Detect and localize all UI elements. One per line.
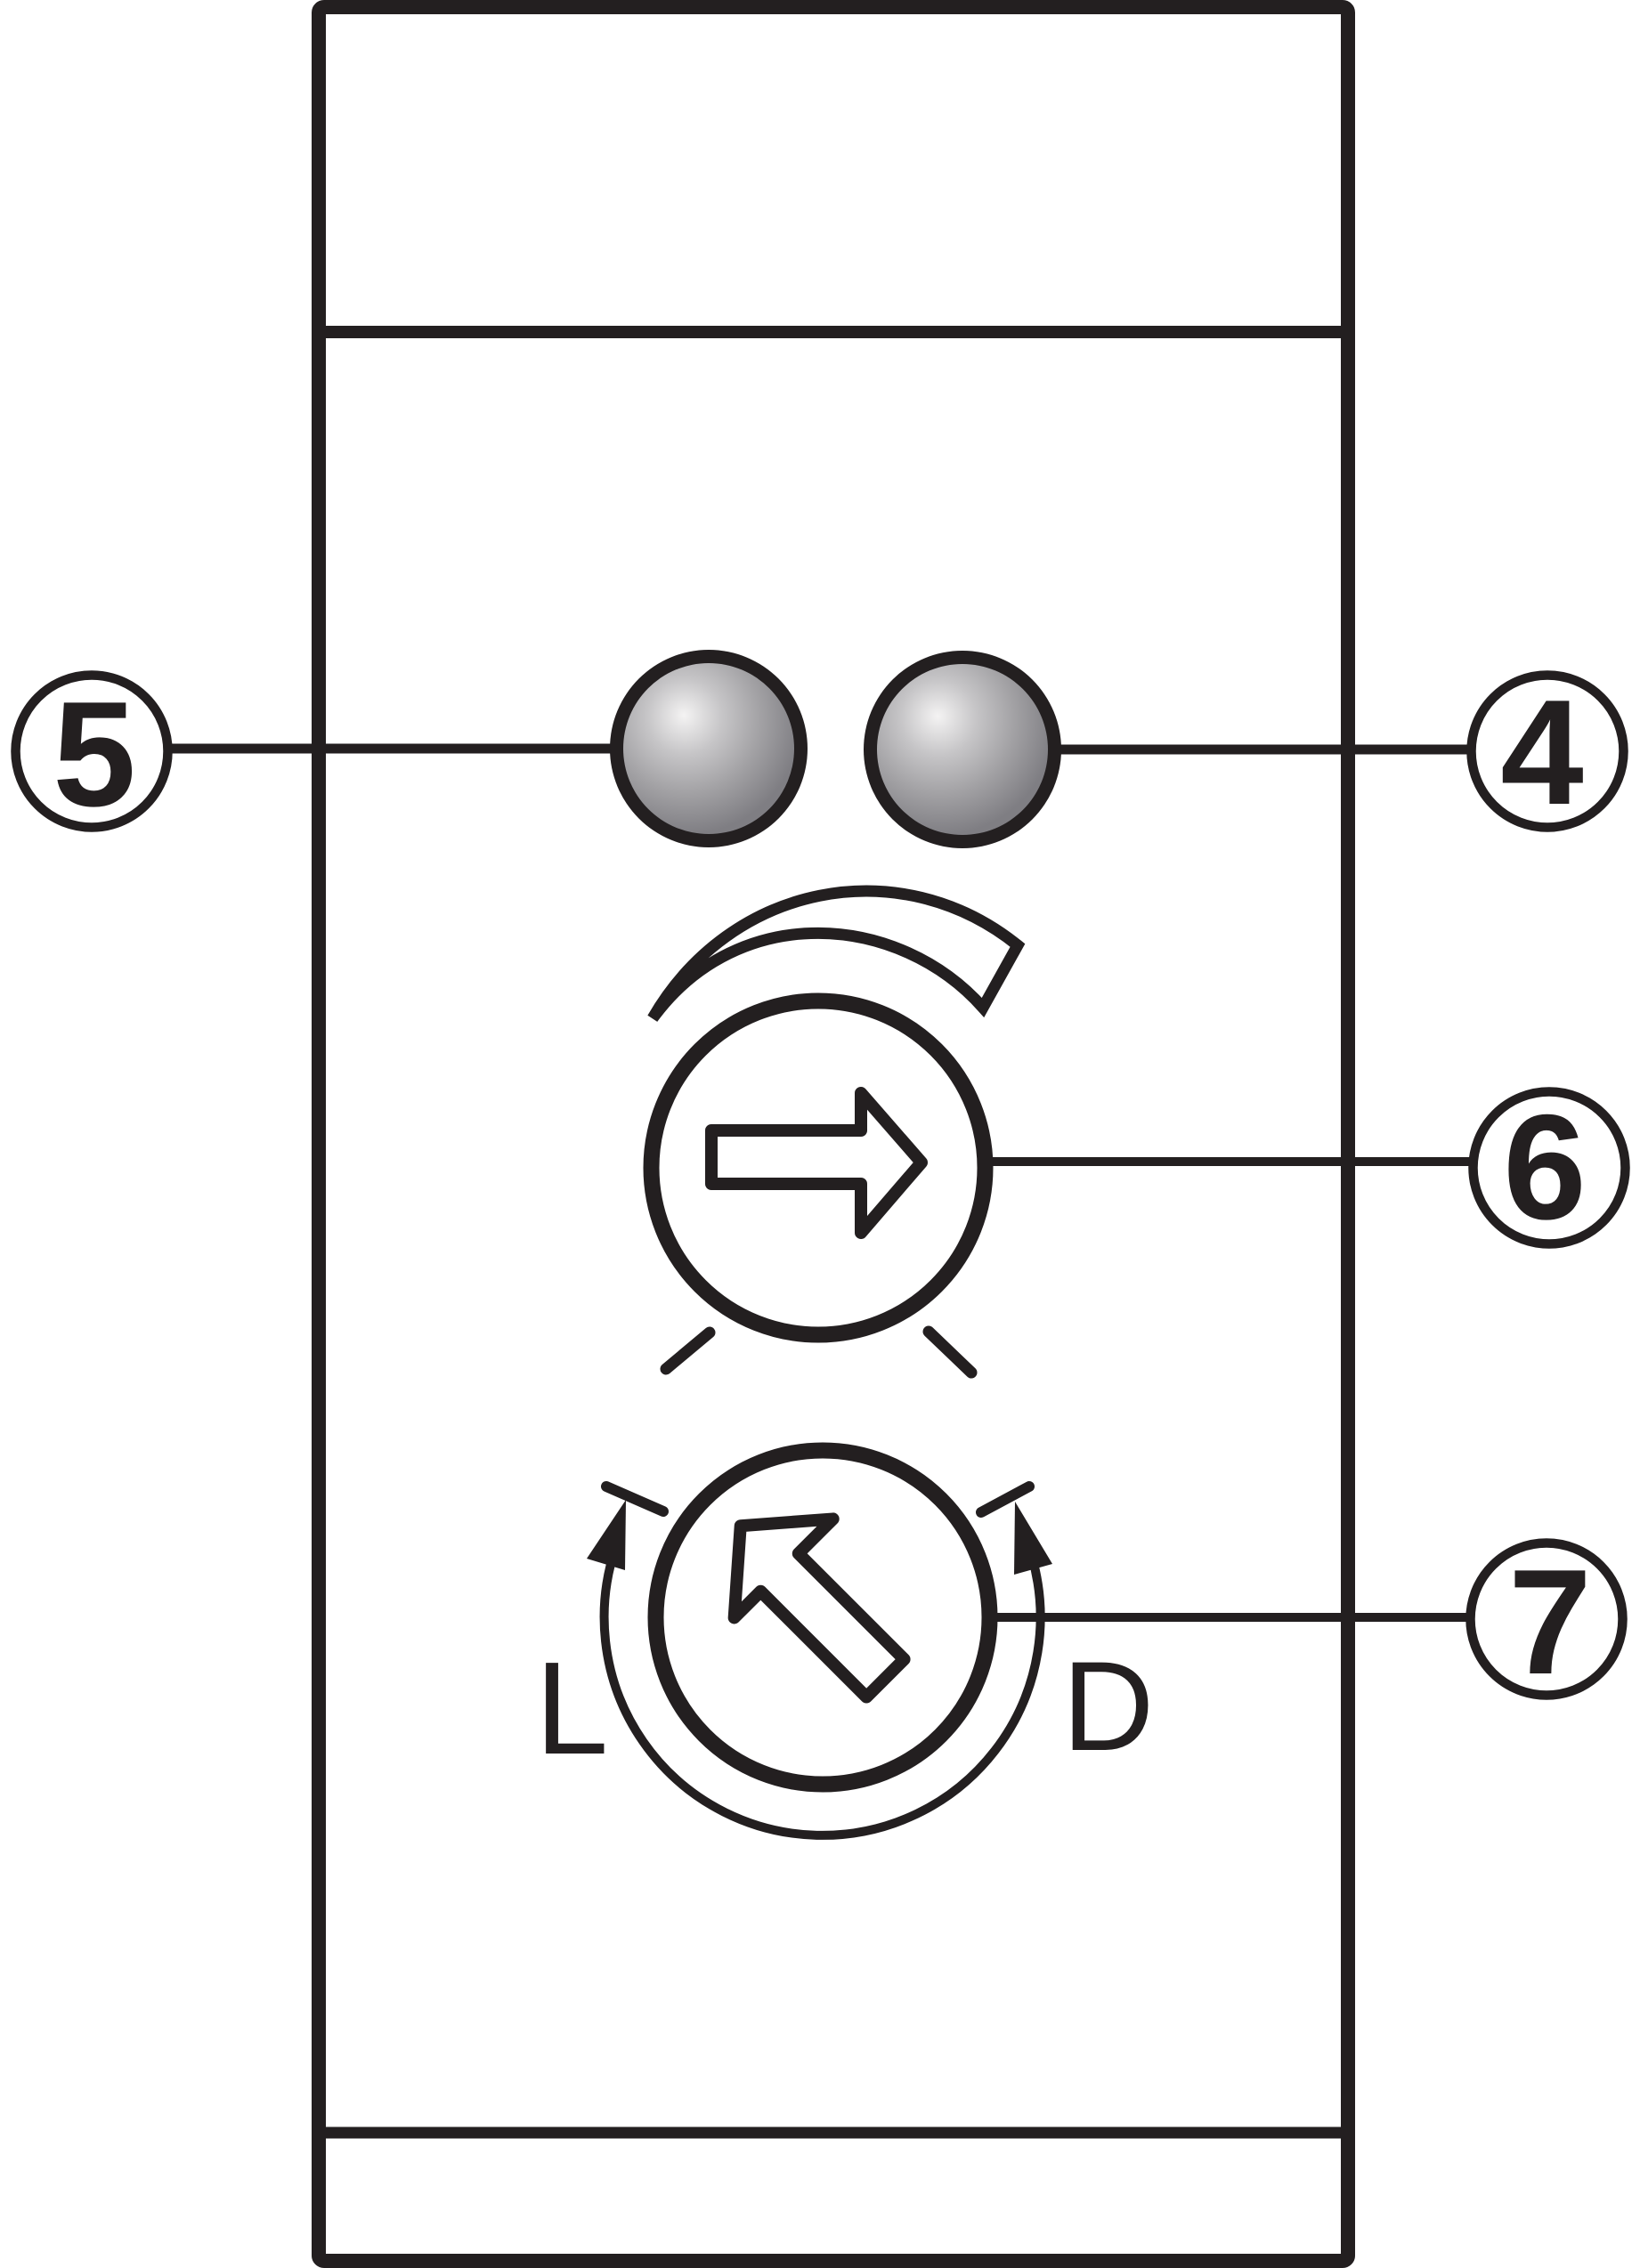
thin rotation arc around knob 2 [605, 1546, 1041, 1835]
leader line knob2 to 7 [979, 1613, 1471, 1622]
tick mark lower-left of knob 1 [666, 1332, 710, 1369]
tick mark upper-right of knob 2 [981, 1486, 1029, 1512]
leader line knob1 to 6 [984, 1157, 1474, 1166]
bottom separator line [321, 2127, 1346, 2139]
top separator line [321, 326, 1346, 338]
svg-text:L: L [535, 1635, 608, 1782]
arrow inside knob 1 (pointing right) [711, 1093, 921, 1233]
callout circle 7 [1471, 1543, 1623, 1696]
arrowhead right end of arc [1014, 1502, 1052, 1575]
svg-text:D: D [1062, 1636, 1154, 1778]
callout circle 4 [1472, 676, 1624, 828]
arrow inside knob 2 (pointing upper-left) [692, 1476, 939, 1723]
callout circle 5 [16, 676, 168, 828]
arrowhead left end of arc [587, 1500, 626, 1570]
tick mark lower-right of knob 1 [929, 1332, 971, 1373]
svg-text:5: 5 [53, 670, 135, 838]
knob 2 (L/D selector dial) [656, 1451, 990, 1785]
leader line 5 to LED1 [169, 744, 623, 754]
rotation swoosh above knob 1 [653, 891, 1018, 1018]
knob 1 (potentiometer dial) [652, 1001, 986, 1335]
leader line LED2 to 4 [1055, 745, 1471, 755]
LED indicator left (5) [610, 650, 808, 847]
svg-text:6: 6 [1503, 1083, 1586, 1251]
device body rectangle [319, 7, 1348, 2261]
svg-text:7: 7 [1508, 1538, 1591, 1705]
LED indicator right (4) [864, 651, 1061, 848]
callout circle 6 [1474, 1092, 1626, 1244]
svg-text:4: 4 [1500, 668, 1583, 836]
tick mark upper-left of knob 2 [606, 1486, 663, 1511]
